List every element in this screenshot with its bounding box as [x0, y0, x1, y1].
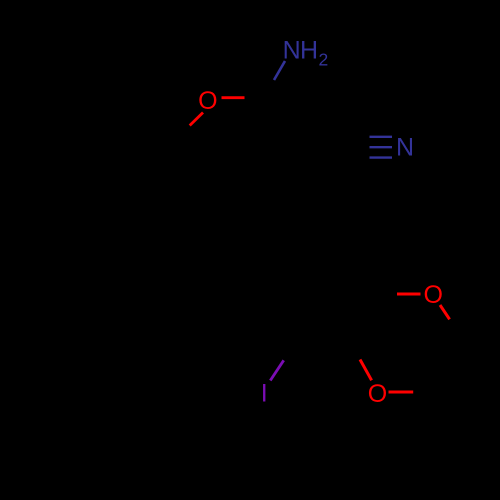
svg-text:O: O	[368, 380, 387, 408]
svg-text:N: N	[283, 36, 301, 64]
bond O1-C8a (red half)	[190, 113, 203, 126]
nitrile triple bond (blue halves)	[370, 136, 393, 138]
svg-text:O: O	[198, 87, 217, 115]
bond O3-CH2 (red half)	[389, 391, 414, 394]
svg-text:2: 2	[319, 50, 329, 70]
svg-text:H: H	[300, 36, 318, 64]
svg-text:I: I	[261, 380, 268, 408]
bond O3-aryl (red half)	[360, 360, 372, 381]
svg-text:N: N	[396, 134, 414, 162]
bond O2-CH2 (red half)	[440, 305, 450, 319]
bond N-C2 (blue half)	[274, 61, 285, 80]
bond O1-C2 (red half)	[222, 96, 245, 99]
bond I-aryl (purple half)	[270, 360, 283, 380]
bond O2-aryl (red half)	[397, 293, 421, 296]
